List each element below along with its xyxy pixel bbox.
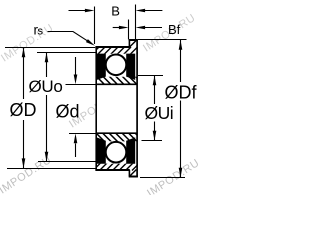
arrow ODf top xyxy=(179,40,183,50)
bearing outline top half xyxy=(95,40,137,177)
arrow Od top pointing down xyxy=(74,75,78,85)
svg-text:rs: rs xyxy=(34,23,44,38)
ext Bf left vertical xyxy=(128,20,130,40)
left face top xyxy=(95,47,97,170)
seal bottom-right xyxy=(126,137,135,163)
arrow Bf right xyxy=(136,26,146,30)
inner ring hatch top xyxy=(94,74,145,86)
arrow ODf bottom xyxy=(179,168,183,178)
ext Uo bottom xyxy=(38,161,96,163)
watermark IMPOD.RU tiles xyxy=(0,12,202,200)
arrow B left xyxy=(85,9,95,13)
ext OD top xyxy=(5,47,95,49)
right face top xyxy=(136,40,138,177)
rs arrowhead xyxy=(86,39,95,46)
bore gap white area xyxy=(97,85,137,133)
ext d top xyxy=(66,84,96,86)
seal top-left xyxy=(97,54,106,80)
ext Ui top xyxy=(138,75,163,77)
ext B right vertical xyxy=(135,5,137,40)
ext B left vertical xyxy=(94,7,96,45)
bearing outline bottom half xyxy=(95,133,137,176)
dimension OUo line xyxy=(46,53,48,162)
ball top xyxy=(106,55,127,76)
svg-text:ØUo: ØUo xyxy=(29,77,63,96)
bore bottom line xyxy=(96,132,138,134)
arrow OUi top xyxy=(153,76,157,86)
flange bottom line xyxy=(129,176,138,178)
OD bottom line xyxy=(95,169,129,171)
bore top line xyxy=(96,83,138,85)
ext OD bottom xyxy=(7,168,96,170)
arrow OUo bottom xyxy=(45,152,49,162)
flange left edge top xyxy=(128,40,130,47)
ball bottom xyxy=(106,142,127,163)
arrow B right xyxy=(136,9,146,13)
seal top-right xyxy=(126,54,135,80)
seal bottom-left xyxy=(97,137,106,163)
svg-text:Bf: Bf xyxy=(168,22,181,37)
OD top line xyxy=(95,46,129,48)
label OD xyxy=(9,99,38,120)
dimension OD line xyxy=(23,48,25,169)
flange left edge bottom xyxy=(128,170,130,177)
arrow OD bottom xyxy=(22,158,26,168)
svg-text:ØUi: ØUi xyxy=(145,103,174,123)
svg-text:Ød: Ød xyxy=(56,101,80,121)
arrow OUi bottom xyxy=(153,131,157,141)
rs leader xyxy=(48,32,92,44)
arrow Od bottom pointing up xyxy=(74,134,78,144)
outer ring hatch top xyxy=(87,40,144,59)
arrow Bf left xyxy=(119,26,129,30)
svg-text:ØDf: ØDf xyxy=(165,83,198,103)
dimension Od arrows (outside) xyxy=(75,57,77,75)
ext Df bottom xyxy=(140,177,185,179)
dimension ODf line xyxy=(180,40,182,178)
label ODf xyxy=(163,82,200,101)
svg-text:ØD: ØD xyxy=(10,100,37,120)
extension lines xyxy=(5,5,187,178)
inner ring hatch bottom xyxy=(94,131,146,144)
dimension B xyxy=(69,10,163,12)
label OUo xyxy=(27,77,64,95)
flange top line xyxy=(129,39,138,41)
ext d bottom xyxy=(69,133,96,135)
dimension OUi line xyxy=(154,76,156,141)
outer ring hatch bottom xyxy=(87,159,144,177)
dimension Bf xyxy=(113,27,162,29)
ext Ui bottom xyxy=(142,140,163,142)
ext Df top xyxy=(138,39,187,41)
ext Uo top xyxy=(37,52,96,54)
svg-text:B: B xyxy=(111,4,120,19)
label OUi xyxy=(143,104,175,122)
arrow OUo top xyxy=(45,53,49,63)
arrow OD top xyxy=(22,47,26,57)
